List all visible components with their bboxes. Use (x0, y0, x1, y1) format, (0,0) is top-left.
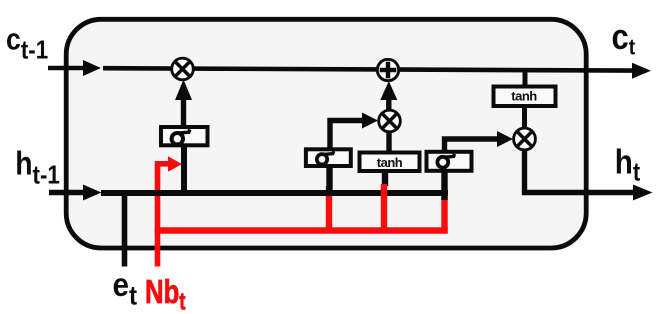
svg-text:ht-1: ht-1 (15, 144, 60, 190)
sigma box 1 (forget gate) (161, 127, 208, 145)
label c_t (612, 18, 636, 60)
svg-text:Nbt: Nbt (145, 274, 186, 314)
svg-text:et: et (113, 267, 138, 311)
wire red riser to output gate (441, 197, 447, 234)
multiply gate 1 (forget) (172, 58, 194, 80)
wire output gate drop to h line (441, 172, 447, 200)
tanh box (cell output) (494, 87, 556, 107)
label c_t-1 (6, 23, 48, 65)
arrowhead up into add gate (380, 81, 397, 100)
label h_t-1 (15, 144, 60, 190)
add gate (377, 59, 398, 80)
wire c input segment (48, 66, 90, 71)
arrowhead h output (633, 185, 653, 201)
svg-text:ct: ct (612, 18, 636, 60)
wire sigma1 to multiply gate 1 (181, 99, 186, 125)
sigma box 3 (output gate) (427, 152, 472, 171)
wire candidate tanh drop to h line (382, 172, 388, 186)
wire red riser to input gate (326, 186, 332, 234)
arrowhead into multiply gate 3 (497, 131, 513, 147)
arrowhead c output (632, 63, 651, 79)
svg-text:tanh: tanh (511, 89, 537, 104)
arrowhead red into forget gate (168, 156, 182, 172)
wire h internal line (101, 190, 448, 196)
wire red bus (155, 227, 448, 233)
svg-text:tanh: tanh (377, 155, 403, 170)
cell body (66, 19, 586, 248)
wire c main line (103, 68, 634, 70)
tanh box (candidate) (360, 153, 420, 172)
wire input gate drop to h line (326, 168, 332, 190)
multiply gate 3 (output) (514, 128, 536, 150)
wire output gate elbow to multiply gate 3 (445, 139, 500, 151)
label Nb_t (145, 274, 186, 314)
wire h output elbow (525, 150, 635, 193)
wire input gate elbow to multiply gate 2 (330, 121, 364, 149)
svg-text:ht: ht (615, 143, 641, 188)
wire forget gate drop to h line (181, 147, 187, 190)
wire c branch down to tanh output box (523, 71, 528, 88)
wire Nb_t red riser (158, 164, 169, 267)
label h_t (615, 143, 641, 188)
arrowhead up into multiply gate 1 (175, 80, 192, 101)
wire h input segment (49, 190, 90, 195)
arrowhead into multiply gate 2 (362, 113, 378, 129)
wire tanh output box down to multiply gate 3 (522, 106, 527, 128)
sigma box 2 (input gate) (306, 149, 351, 166)
wire e_t input drop (122, 193, 128, 267)
wire multiply gate 2 up to add gate (386, 99, 391, 110)
arrowhead h input (83, 185, 102, 201)
wire tanh box up to multiply gate 2 (386, 132, 391, 153)
wire red riser over h line (candidate) (381, 184, 387, 234)
svg-text:ct-1: ct-1 (6, 23, 48, 65)
arrowhead c input (83, 60, 101, 76)
label e_t (113, 267, 138, 311)
multiply gate 2 (input) (379, 110, 401, 132)
